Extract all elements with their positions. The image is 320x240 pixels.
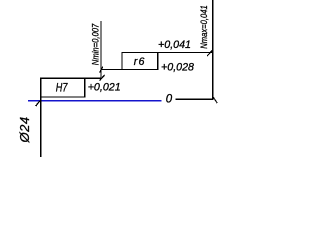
wire +0.021 level line (85, 77, 102, 79)
svg-text:0: 0 (166, 93, 173, 105)
svg-text:Ø24: Ø24 (17, 116, 32, 143)
wire +0.041 level line (122, 52, 213, 54)
svg-text:+0,028: +0,028 (161, 62, 195, 74)
zero extension line (black) to Nmax dimension (176, 98, 214, 100)
tick at Nmax bottom (zero level) (213, 97, 217, 103)
dimension line Nmax (vertical right, from image top to zero line) (212, 0, 214, 100)
tick at Nmin lower (+0,021 level) (100, 75, 105, 81)
tick at Nmin upper (+0,028 level) (100, 67, 103, 73)
svg-text:Nmax=0,041: Nmax=0,041 (199, 5, 210, 49)
box r6 tolerance zone (122, 53, 158, 70)
svg-text:Nmin=0,007: Nmin=0,007 (91, 23, 101, 65)
box H7 tolerance zone (41, 78, 85, 97)
svg-text:H7: H7 (56, 81, 69, 95)
wire +0.028 step line to Nmin (101, 69, 123, 71)
tick at zero line / diameter dimension (36, 101, 40, 106)
tick at Nmax top (+0,041 level) (207, 50, 212, 56)
extension line for diameter (vertical, to bottom edge) (40, 97, 42, 157)
svg-text:r6: r6 (134, 56, 146, 68)
dimension line Nmin (vertical) (100, 21, 102, 78)
svg-text:+0,041: +0,041 (158, 39, 191, 51)
svg-text:+0,021: +0,021 (88, 82, 121, 94)
zero line (blue) (28, 100, 161, 102)
